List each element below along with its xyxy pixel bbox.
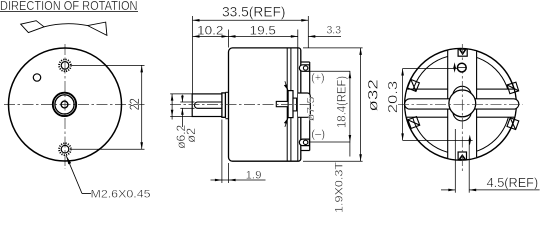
svg-text:(+): (+)	[311, 72, 324, 84]
svg-text:22: 22	[126, 98, 142, 110]
svg-text:18.4(REF): 18.4(REF)	[336, 76, 348, 128]
svg-text:19.5: 19.5	[250, 24, 277, 38]
svg-text:ø2: ø2	[186, 128, 198, 143]
svg-text:20.3: 20.3	[385, 81, 400, 114]
svg-text:M2.6X0.45: M2.6X0.45	[91, 188, 151, 200]
svg-text:3.3: 3.3	[327, 25, 342, 37]
svg-text:ø7.5: ø7.5	[306, 96, 317, 121]
svg-text:4.5(REF): 4.5(REF)	[487, 175, 539, 190]
svg-text:33.5(REF): 33.5(REF)	[222, 4, 286, 19]
svg-text:1.9: 1.9	[246, 169, 262, 181]
svg-text:10.2: 10.2	[197, 24, 224, 38]
svg-text:1.9X0.3T: 1.9X0.3T	[334, 162, 346, 213]
svg-text:(–): (–)	[311, 128, 325, 140]
svg-text:ø32: ø32	[366, 79, 381, 112]
